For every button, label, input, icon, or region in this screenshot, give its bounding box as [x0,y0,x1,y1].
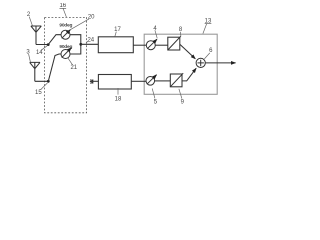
label 5 leader [152,89,155,99]
svg-text:15: 15 [35,90,42,96]
label 9 leader [179,89,182,99]
svg-text:6: 6 [209,48,213,54]
wire filter9 to summer [182,68,196,81]
filter 8 [168,36,181,50]
wire PS21 out to node 24 [70,44,81,54]
label 18 leader [117,88,119,95]
svg-text:8: 8 [179,27,183,33]
svg-text:18: 18 [115,97,122,103]
filter 9 [170,73,183,87]
label 8 leader [179,32,182,36]
svg-text:3: 3 [26,49,30,55]
box 17 [98,37,133,53]
phase shifter 20 [61,30,70,39]
svg-text:14: 14 [36,50,43,56]
label 17 leader [115,32,117,37]
svg-text:21: 21 [70,65,77,71]
variable amp 4 [146,40,156,50]
wire box17 to amp 4 [133,44,146,46]
node 14 junction dot [47,43,50,46]
phase shifter 21 [61,49,70,59]
svg-text:2: 2 [27,12,31,18]
label 15 leader [40,83,47,90]
svg-text:90deg: 90deg [59,44,72,50]
antenna 2 [31,26,48,45]
wire box18 to amp 5 [131,80,146,82]
svg-text:24: 24 [87,37,94,43]
variable amp 5 [146,76,156,85]
svg-text:16: 16 [59,3,66,9]
wire node14 to phase shifter 20 [48,35,61,45]
label 16 leader [63,8,67,17]
antenna 3 [30,62,49,81]
wire amp4 to filter 8 [155,44,168,46]
wire PS20 out to node 24 [70,35,81,45]
wire amp5 to filter 9 [155,80,171,82]
label 2 leader [29,17,32,26]
block 13 outline [144,34,217,94]
label 4 leader [155,30,157,38]
label 13 leader [203,23,207,33]
dashed block 16 outline [45,17,87,112]
box 18 [98,75,131,90]
svg-text:5: 5 [154,100,158,106]
wire filter8 to summer [180,44,196,59]
svg-text:4: 4 [153,26,157,32]
wire into box 18 [93,80,99,82]
svg-text:17: 17 [114,27,121,33]
box 18 input mark [90,79,93,83]
label 24 leader [86,41,88,43]
node 15 junction dot [47,80,50,83]
label 3 leader [29,54,31,62]
wire node 24 to box 17 [81,43,99,45]
wire node15 to phase shifter 21 [48,54,61,81]
label 21 leader [68,58,73,65]
label 14 leader [41,46,47,51]
svg-text:20: 20 [88,15,95,21]
output wire with arrow [205,62,235,64]
svg-text:9: 9 [181,100,185,106]
summer 6 [196,58,205,67]
node 24 junction dot [79,43,82,46]
label 6 leader [204,53,209,59]
svg-text:90deg: 90deg [59,22,72,28]
label 20 leader [70,19,89,30]
svg-text:13: 13 [205,18,212,24]
